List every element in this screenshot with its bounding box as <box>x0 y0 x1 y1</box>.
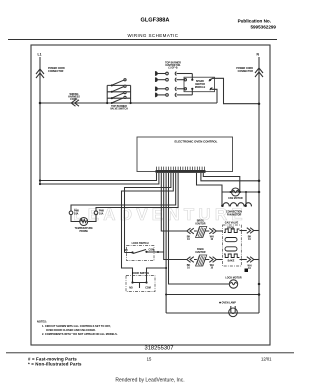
wire EOC pin1 to L1 <box>40 173 157 181</box>
svg-text:1. CIRCUIT SHOWN WITH ALL CON: 1. CIRCUIT SHOWN WITH ALL CONTROLS SET T… <box>42 324 111 328</box>
svg-text:12/01: 12/01 <box>261 357 272 362</box>
svg-text:CONNECTOR: CONNECTOR <box>48 70 64 73</box>
wire EOC pin7 to lock switch <box>125 173 171 253</box>
wire door COM up to lamp chain <box>147 268 167 283</box>
svg-text:GLGF388A: GLGF388A <box>141 18 170 24</box>
svg-text:MODULE: MODULE <box>195 86 206 89</box>
junction block <box>245 269 249 273</box>
EOC connector strip <box>156 170 206 173</box>
svg-text:IGNITOR: IGNITOR <box>196 223 206 226</box>
fan winding element <box>245 192 247 206</box>
svg-text:WIRING SCHEMATIC: WIRING SCHEMATIC <box>128 33 179 38</box>
svg-text:CONNECTOR: CONNECTOR <box>238 70 254 73</box>
wire module TR to N <box>210 78 259 103</box>
broil connector right <box>209 228 216 234</box>
wire loop to N <box>166 294 259 296</box>
temperature probe RT1 <box>71 215 96 222</box>
bake coil <box>224 254 239 258</box>
svg-text:LOCK MOTOR: LOCK MOTOR <box>225 277 242 280</box>
svg-text:NOTES:: NOTES: <box>37 320 47 324</box>
wire EOC pin6 to lock motor <box>169 173 230 284</box>
wire valve bottom to N <box>240 259 247 261</box>
svg-text:FAN MOTOR: FAN MOTOR <box>227 214 242 217</box>
svg-text:* = Non-Illustrated Parts: * = Non-Illustrated Parts <box>28 362 82 367</box>
svg-text:LOCK SWITCH: LOCK SWITCH <box>132 242 149 245</box>
svg-text:COM: COM <box>149 249 155 252</box>
wire EOC pin8 to door switch <box>122 173 174 283</box>
fan motor M1 <box>222 191 259 193</box>
capsule 2 <box>225 247 237 251</box>
electronic oven control box <box>137 137 233 172</box>
wire EOC pin3 to broil ignitor <box>161 173 187 231</box>
wire row4 corner into module <box>191 89 193 95</box>
svg-text:PROBE: PROBE <box>79 230 88 233</box>
svg-text:CONN.: CONN. <box>70 98 78 101</box>
svg-text:BROIL: BROIL <box>227 227 235 230</box>
wire L1 rail <box>39 57 41 184</box>
wire EOC right pin to N <box>201 173 259 181</box>
wire bus up to module BR <box>212 89 217 103</box>
svg-text:✱ OVEN LAMP: ✱ OVEN LAMP <box>219 302 236 305</box>
svg-text:10A: 10A <box>74 212 79 215</box>
power cord connector N chevron <box>255 68 263 77</box>
valve switch blades <box>112 79 127 103</box>
junction L1 bus <box>39 102 42 105</box>
header underline <box>8 39 277 41</box>
EOC pin header comb <box>157 167 205 170</box>
wire EOC pin5 to oven lamp loop <box>165 173 167 313</box>
wire EOC pin2 to L1 <box>40 173 159 184</box>
svg-text:(1 OF 4): (1 OF 4) <box>169 67 178 70</box>
wire main L1 bus <box>40 102 217 104</box>
svg-text:ELECTRONIC OVEN CONTROL: ELECTRONIC OVEN CONTROL <box>175 140 218 144</box>
svg-text:5995362299: 5995362299 <box>250 25 276 30</box>
svg-text:2. COMPONENTS WITH * DO NOT: 2. COMPONENTS WITH * DO NOT APPEAR ON AL… <box>42 332 118 336</box>
svg-text:Rendered by LeadVenture, Inc.: Rendered by LeadVenture, Inc. <box>115 378 184 384</box>
wire EOC pin4 to bake ignitor <box>164 173 187 260</box>
svg-text:Publication No.: Publication No. <box>238 19 271 24</box>
svg-text:L1: L1 <box>38 53 42 57</box>
svg-text:BAKE: BAKE <box>228 260 235 263</box>
svg-text:10A: 10A <box>99 212 104 215</box>
wire N rail <box>258 57 260 313</box>
bake connector right <box>209 257 216 263</box>
svg-text:VALVE SWITCH: VALVE SWITCH <box>110 107 128 110</box>
capsule 1 <box>225 238 237 242</box>
wire row1 corner into module <box>191 74 193 80</box>
svg-text:NO: NO <box>129 287 133 290</box>
bake ignitor connector left <box>187 257 194 263</box>
svg-text:FAN MOTOR: FAN MOTOR <box>228 197 243 200</box>
svg-text:OVEN DOOR CLOSED AND UNLOCKED.: OVEN DOOR CLOSED AND UNLOCKED. <box>46 328 96 332</box>
wire valve top to N <box>240 230 247 232</box>
svg-text:318255307: 318255307 <box>144 346 173 352</box>
svg-text:COM: COM <box>145 287 151 290</box>
spark ignitor module U1 <box>184 77 215 92</box>
top burner valve switch bank <box>107 85 130 103</box>
wire EOC pin9 to probe left <box>71 173 176 211</box>
wire EOC right pin to fan branch <box>197 173 223 206</box>
svg-text:NC: NC <box>125 249 129 252</box>
temperature probe connectors <box>69 211 73 215</box>
power cord connector L1 chevron <box>36 69 44 78</box>
footer line <box>6 352 294 354</box>
ignitor switch rows <box>156 72 193 97</box>
harness connector chevron on bus <box>71 100 79 106</box>
wire EOC pin10 to probe right <box>96 173 178 211</box>
svg-text:GAS VALVE: GAS VALVE <box>225 222 239 225</box>
svg-text:15: 15 <box>147 357 152 362</box>
broil coil <box>224 229 239 233</box>
broil ignitor connector left <box>187 228 194 234</box>
svg-text:IGNITOR: IGNITOR <box>196 251 206 254</box>
wire EOC right pin to fan motor junction <box>203 173 240 192</box>
schematic border frame <box>31 45 270 345</box>
